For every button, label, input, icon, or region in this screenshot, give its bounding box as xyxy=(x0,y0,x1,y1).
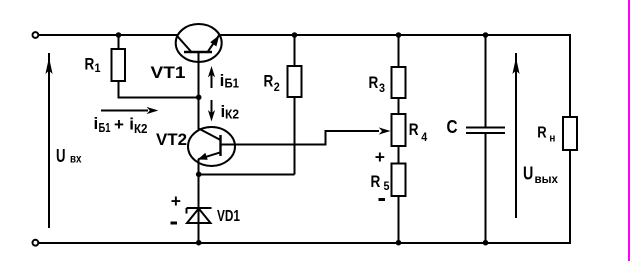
label minus R5 xyxy=(379,198,386,201)
resistor R5 xyxy=(392,164,406,197)
svg-text:+: + xyxy=(171,191,181,211)
resistor R1 xyxy=(112,49,126,81)
svg-text:1: 1 xyxy=(95,61,101,75)
svg-text:К2: К2 xyxy=(134,121,148,136)
wire Rн top lead xyxy=(569,35,571,117)
wire R2 top lead xyxy=(294,35,296,66)
capacitor C xyxy=(466,127,505,133)
wire R1 top lead xyxy=(118,35,120,49)
wire Rн bottom lead xyxy=(569,150,571,243)
svg-text:VT2: VT2 xyxy=(156,130,187,149)
svg-text:вых: вых xyxy=(535,174,559,186)
node VT1 base / R1 junction xyxy=(196,95,202,101)
node R2 top xyxy=(292,32,298,38)
voltage arrow Uвх xyxy=(45,53,52,228)
wire C top lead xyxy=(485,35,487,127)
node VD1 bottom xyxy=(196,240,202,246)
svg-text:C: C xyxy=(447,117,458,137)
node R1 top xyxy=(116,32,122,38)
svg-text:Б1: Б1 xyxy=(225,76,240,91)
svg-text:R: R xyxy=(409,120,419,139)
svg-text:2: 2 xyxy=(274,80,280,94)
wire VT2 emitter down to VD1 and bottom rail xyxy=(198,159,200,243)
wiper arrow into R4 xyxy=(379,127,391,134)
wire VT1 base down to VT2 collector xyxy=(198,52,200,130)
wire C bottom lead xyxy=(485,134,487,243)
current arrow iБ1+iК2 xyxy=(101,107,158,114)
wire R4-R5 xyxy=(398,146,400,164)
wire top rail left (input to VT1 collector) xyxy=(39,34,178,36)
terminal input top xyxy=(33,32,39,38)
svg-text:R: R xyxy=(371,172,381,191)
label iБ1 + iК2 xyxy=(94,114,148,136)
svg-text:R: R xyxy=(369,73,379,92)
voltage arrow Uвых xyxy=(512,53,519,218)
svg-text:R: R xyxy=(264,72,274,91)
svg-text:вх: вх xyxy=(70,153,82,165)
svg-text:VT1: VT1 xyxy=(151,63,186,82)
svg-text:VD1: VD1 xyxy=(217,208,240,225)
resistor R3 xyxy=(392,67,406,98)
transistor VT2 xyxy=(188,127,235,166)
svg-text:Б1: Б1 xyxy=(99,120,111,135)
wire R3-R4 xyxy=(398,98,400,114)
resistor R4 (potentiometer) xyxy=(392,114,406,146)
svg-text:+: + xyxy=(375,147,385,167)
node C bottom xyxy=(483,240,489,246)
node VT2 emitter / R2 junction xyxy=(196,172,202,178)
current arrow iК2 xyxy=(208,100,215,122)
wire VT2 emitter to R2 bottom xyxy=(199,173,295,175)
svg-text:н: н xyxy=(549,133,555,145)
svg-text:+: + xyxy=(114,115,124,134)
wire top rail right (VT1 emitter to output) xyxy=(221,34,572,36)
svg-text:3: 3 xyxy=(379,81,385,95)
svg-text:R: R xyxy=(85,55,95,74)
svg-text:R: R xyxy=(537,125,547,142)
transistor VT1 xyxy=(176,24,222,62)
node R3 top xyxy=(396,32,402,38)
svg-text:5: 5 xyxy=(384,179,390,193)
label minus VD1 xyxy=(171,222,178,225)
decorative magenta page border line xyxy=(628,0,630,261)
svg-text:U: U xyxy=(56,145,66,166)
wire R2 bottom lead xyxy=(294,97,296,174)
zener diode VD1 xyxy=(187,208,212,223)
wire bottom rail xyxy=(39,242,571,244)
resistor Rн (load) xyxy=(563,117,577,150)
current arrow iБ1 xyxy=(208,66,215,88)
node R5 bottom xyxy=(396,240,402,246)
wire VT2 base to R4 wiper xyxy=(221,131,380,144)
terminal input bottom xyxy=(33,240,39,246)
wire R1 bottom lead to VT1 base xyxy=(119,81,199,97)
wire R5 bottom lead xyxy=(398,196,400,243)
resistor R2 xyxy=(288,66,302,97)
svg-text:К2: К2 xyxy=(225,107,239,122)
wire R3 top lead xyxy=(398,35,400,67)
svg-text:4: 4 xyxy=(421,130,427,144)
node C top xyxy=(483,32,489,38)
svg-text:U: U xyxy=(523,163,533,183)
